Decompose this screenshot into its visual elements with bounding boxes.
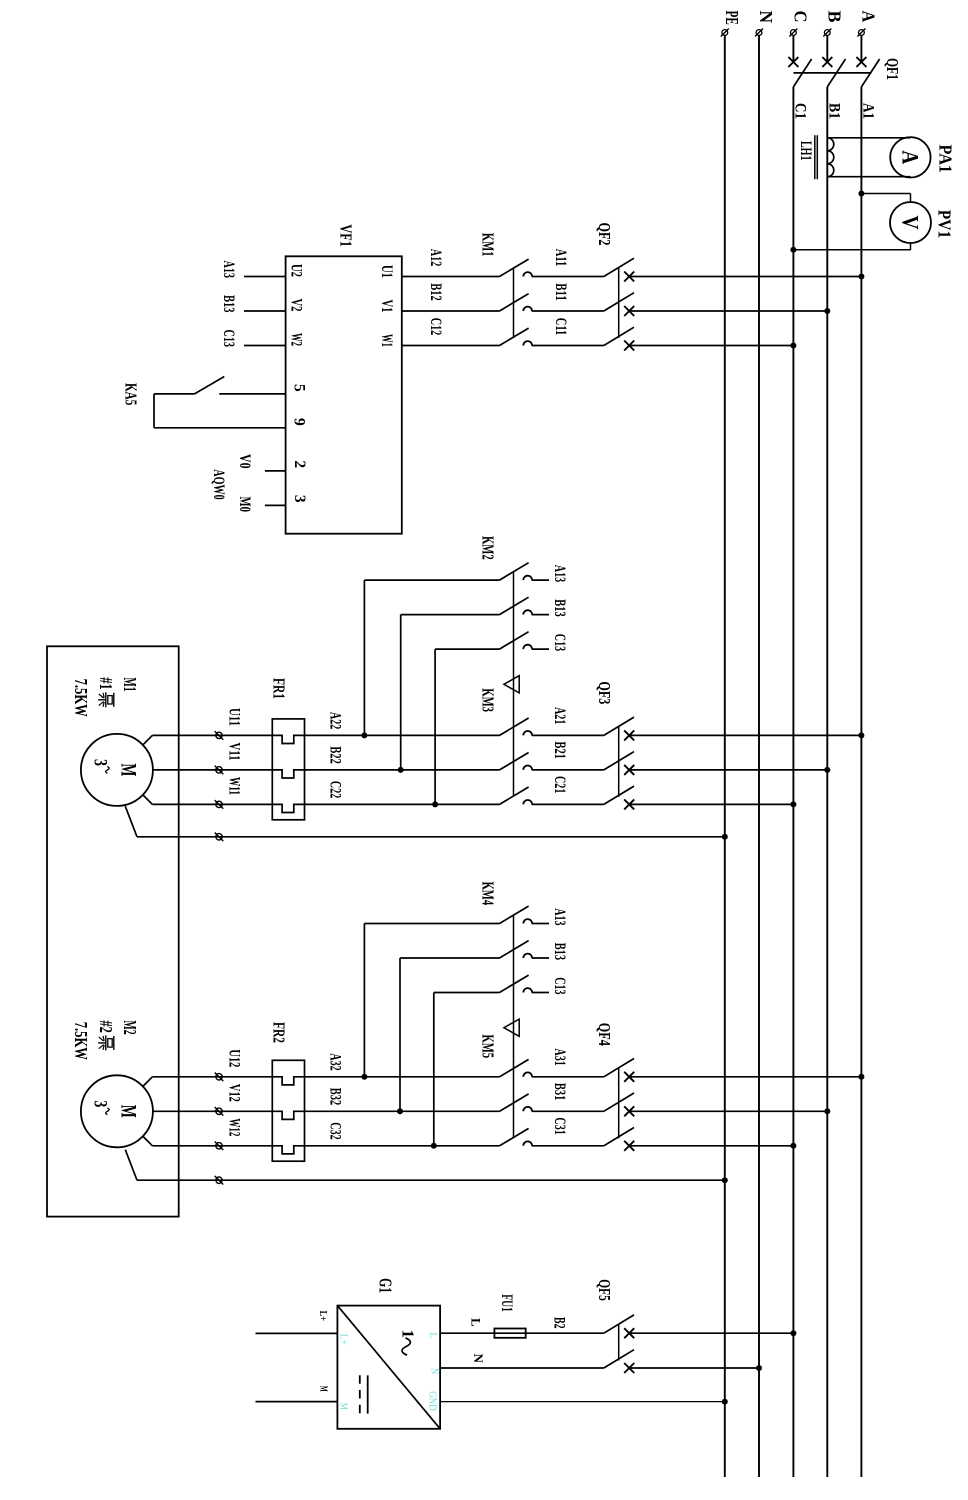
- wire B32 KM5 to FR2: [272, 1111, 499, 1119]
- motor M2: [81, 1075, 153, 1147]
- mechanical interlock triangle: [504, 1019, 519, 1036]
- VF1 terminal W1: [378, 334, 395, 347]
- wire KM4 pole 2 to B32: [397, 958, 500, 1114]
- circuit breaker QF5: [595, 1279, 634, 1373]
- VF1 terminal U2: [288, 264, 305, 277]
- wire N: [440, 1354, 604, 1369]
- contactor KM4: [479, 882, 533, 1138]
- contactor KM2: [479, 536, 533, 796]
- label W12: [226, 1118, 243, 1136]
- wires FR to motor M1 with terminals: [143, 731, 272, 809]
- wire B11 from bus B: [629, 308, 830, 314]
- label AQW0: [210, 469, 227, 500]
- label B11: [552, 283, 569, 301]
- label U11: [226, 708, 243, 726]
- KM2 input stub A13: [532, 579, 549, 581]
- VF1 terminals 5 and 9 with relay contact KA5: [122, 377, 308, 428]
- label C12: [427, 318, 444, 336]
- contactor KM5: [479, 1034, 533, 1145]
- label B31: [551, 1083, 568, 1100]
- power supply G1 box: [337, 1278, 440, 1429]
- label B1: [825, 103, 842, 119]
- bus C terminal, label and line: [789, 11, 810, 1478]
- wire A21: [532, 734, 604, 736]
- wire B31: [532, 1110, 604, 1112]
- label V12: [226, 1084, 243, 1102]
- circuit breaker QF3: [595, 681, 634, 809]
- KM4 input stub C13: [532, 992, 549, 994]
- svg-text:N: N: [429, 1368, 440, 1375]
- wire L with fuse FU1: [440, 1294, 604, 1338]
- mechanical interlock triangle: [504, 676, 519, 693]
- wire KM4 pole 1 to A32: [361, 924, 499, 1080]
- thermal overload relay FR2: [270, 1022, 305, 1161]
- voltmeter PV1: [790, 191, 954, 253]
- label A1: [859, 103, 876, 119]
- ammeter PA1: [828, 137, 956, 177]
- motor M1: [81, 734, 153, 806]
- wire C22 KM3 to FR1: [272, 804, 499, 812]
- label B13: [220, 295, 237, 313]
- label M2 nameplate: [71, 1020, 140, 1060]
- VF1 terminal V1: [378, 300, 395, 313]
- wires FR to motor M2 with terminals: [143, 1073, 272, 1151]
- label A13: [551, 908, 568, 926]
- KM4 input stub A13: [532, 923, 549, 925]
- wire C32 KM5 to FR2: [272, 1146, 499, 1154]
- svg-text:GND: GND: [427, 1391, 438, 1411]
- label C31: [551, 1117, 568, 1134]
- G1 wire L+: [256, 1311, 338, 1334]
- wire A21 from bus A: [629, 732, 864, 738]
- contactor KM3: [479, 688, 533, 804]
- label B22: [327, 746, 344, 764]
- wire A31 from bus A: [629, 1074, 864, 1080]
- variable frequency drive VF1 box: [286, 224, 402, 533]
- PE wire of motor M2: [125, 1150, 728, 1185]
- wire KM2 pole 1 to A22: [361, 580, 499, 738]
- label C22: [327, 781, 344, 799]
- bus A terminal, label and line: [857, 11, 878, 1478]
- wire C11: [532, 345, 604, 347]
- circuit breaker QF4: [595, 1023, 634, 1151]
- wire N to bus N: [629, 1365, 762, 1371]
- G1 terminal labels cyan: [337, 1332, 439, 1411]
- VF1 terminal V2: [288, 299, 305, 312]
- svg-text:M: M: [337, 1403, 348, 1410]
- label A31: [551, 1048, 568, 1065]
- VF1 output stub C13: [244, 345, 286, 347]
- label B12: [427, 283, 444, 301]
- label A13: [551, 565, 568, 583]
- label C13: [220, 330, 237, 348]
- wire B22 KM3 to FR1: [272, 770, 499, 778]
- wire C11 from bus C: [629, 343, 796, 349]
- G1 DC symbol: [360, 1375, 368, 1413]
- VF1 terminal 3 stub M0: [236, 495, 308, 512]
- label B13: [551, 599, 568, 617]
- wire C21 from bus C: [629, 801, 796, 807]
- label A11: [552, 249, 569, 266]
- wire A32 KM5 to FR2: [272, 1077, 499, 1085]
- label C11: [552, 318, 569, 336]
- KM4 input stub B13: [532, 957, 549, 959]
- label A32: [327, 1053, 344, 1071]
- label M1 nameplate: [71, 677, 140, 717]
- bus N terminal, label and line: [755, 11, 776, 1478]
- label C1: [791, 103, 808, 119]
- thermal overload relay FR1: [270, 678, 305, 820]
- PE wire of motor M1: [125, 806, 728, 841]
- wire B11: [532, 310, 604, 312]
- label C13: [551, 977, 568, 995]
- wire KM2 pole 3 to C22: [432, 649, 499, 807]
- label C21: [551, 776, 568, 793]
- wire L to bus C: [629, 1330, 796, 1336]
- G1 wire M: [256, 1386, 338, 1402]
- bus PE terminal, label and line: [721, 11, 742, 1478]
- label V11: [226, 743, 243, 761]
- wire A31: [532, 1076, 604, 1078]
- VF1 terminal U1: [378, 265, 395, 278]
- KM2 input stub B13: [532, 614, 549, 616]
- enclosure box around motors M1 M2: [47, 646, 179, 1216]
- wire A22 KM3 to FR1: [272, 735, 499, 743]
- VF1 terminal 2 stub V0: [236, 454, 308, 471]
- VF1 output stub A13: [244, 276, 286, 278]
- wire C21: [532, 803, 604, 805]
- wire GND to bus PE: [440, 1399, 728, 1405]
- label U12: [226, 1049, 243, 1067]
- wire B21: [532, 769, 604, 771]
- wire A11: [532, 276, 604, 278]
- label B21: [551, 742, 568, 759]
- label B13: [551, 943, 568, 961]
- wire A11 from bus A: [629, 274, 864, 280]
- label A21: [551, 707, 568, 724]
- label A13: [220, 261, 237, 279]
- bus B terminal, label and line: [823, 11, 844, 1478]
- current transformer LH1: [797, 135, 834, 179]
- svg-text:L+: L+: [337, 1334, 348, 1345]
- wire KM4 pole 3 to C32: [431, 993, 500, 1149]
- wire KM2 pole 2 to B22: [398, 615, 500, 773]
- svg-text:L: L: [427, 1332, 438, 1338]
- VF1 output stub B13: [244, 310, 286, 312]
- label A22: [327, 712, 344, 730]
- label B32: [327, 1088, 344, 1106]
- wire B31 from bus B: [629, 1108, 830, 1114]
- wire C31 from bus C: [629, 1143, 796, 1149]
- label C13: [551, 634, 568, 652]
- wire C31: [532, 1145, 604, 1147]
- label A12: [427, 249, 444, 267]
- label C32: [327, 1122, 344, 1140]
- label W11: [226, 777, 243, 795]
- KM2 input stub C13: [532, 648, 549, 650]
- circuit breaker QF2: [595, 223, 634, 351]
- VF1 terminal W2: [288, 333, 305, 346]
- wire B21 from bus B: [629, 767, 830, 773]
- circuit breaker QF1: [788, 57, 902, 87]
- contactor KM1: [402, 233, 532, 346]
- G1 AC symbol 1~: [399, 1330, 418, 1356]
